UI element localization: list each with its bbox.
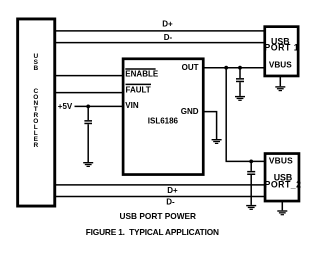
capacitor C1 (VIN bypass) bbox=[84, 106, 92, 162]
junction OUT node B bbox=[238, 66, 242, 70]
svg-text:D+: D+ bbox=[167, 186, 178, 195]
wire D+ bottom bbox=[53, 184, 265, 186]
ground (C3) bbox=[246, 205, 256, 210]
block USB port 1 bbox=[264, 27, 299, 76]
wire D- bottom bbox=[53, 196, 265, 198]
svg-text:VBUS: VBUS bbox=[269, 60, 292, 69]
svg-text:VBUS: VBUS bbox=[269, 156, 293, 166]
IC U1 ISL6186 bbox=[123, 59, 203, 175]
svg-text:GND: GND bbox=[181, 107, 199, 116]
wire IC GND pin bbox=[202, 112, 217, 139]
block USB port 2 bbox=[265, 154, 302, 202]
wire OUT bbox=[202, 67, 265, 69]
wire D- top bbox=[53, 42, 265, 44]
svg-text:PORT 1: PORT 1 bbox=[264, 43, 299, 53]
svg-text:ENABLE: ENABLE bbox=[125, 70, 159, 79]
svg-text:OUT: OUT bbox=[182, 63, 199, 72]
svg-text:R: R bbox=[33, 142, 38, 149]
junction VBUS2 node bbox=[249, 160, 253, 164]
svg-text:B: B bbox=[33, 65, 38, 72]
svg-text:VIN: VIN bbox=[125, 101, 139, 110]
svg-text:PORT_2: PORT_2 bbox=[265, 180, 302, 190]
block USB controller bbox=[18, 19, 55, 206]
wire D+ top bbox=[53, 30, 265, 32]
svg-text:D-: D- bbox=[164, 33, 173, 42]
ground (C1) bbox=[83, 162, 93, 167]
capacitor C3 (VBUS2 bypass) bbox=[247, 161, 255, 205]
wire VIN (+5V rail) bbox=[75, 105, 126, 107]
wire VBUS port2 (horizontal) bbox=[226, 160, 265, 162]
ground (IC GND) bbox=[212, 139, 222, 144]
svg-text:+5V: +5V bbox=[58, 102, 73, 111]
svg-text:D-: D- bbox=[166, 197, 175, 206]
wire ENABLE bbox=[53, 75, 125, 77]
ground (USB port 2) bbox=[277, 202, 287, 215]
ground (USB port 1) bbox=[275, 77, 285, 91]
svg-text:USB PORT POWER: USB PORT POWER bbox=[120, 211, 197, 221]
svg-text:D+: D+ bbox=[162, 19, 173, 28]
svg-text:FAULT: FAULT bbox=[126, 86, 151, 95]
capacitor C2 (OUT bypass) bbox=[236, 68, 244, 96]
svg-text:FIGURE 1. TYPICAL APPLICATION: FIGURE 1. TYPICAL APPLICATION bbox=[86, 227, 219, 237]
junction +5V node bbox=[86, 105, 90, 109]
svg-text:ISL6186: ISL6186 bbox=[148, 117, 179, 126]
wire OUT to VBUS port2 (vertical) bbox=[225, 68, 227, 162]
junction OUT node A bbox=[224, 66, 228, 70]
wire FAULT bbox=[53, 92, 125, 94]
ground (C2) bbox=[235, 96, 245, 101]
